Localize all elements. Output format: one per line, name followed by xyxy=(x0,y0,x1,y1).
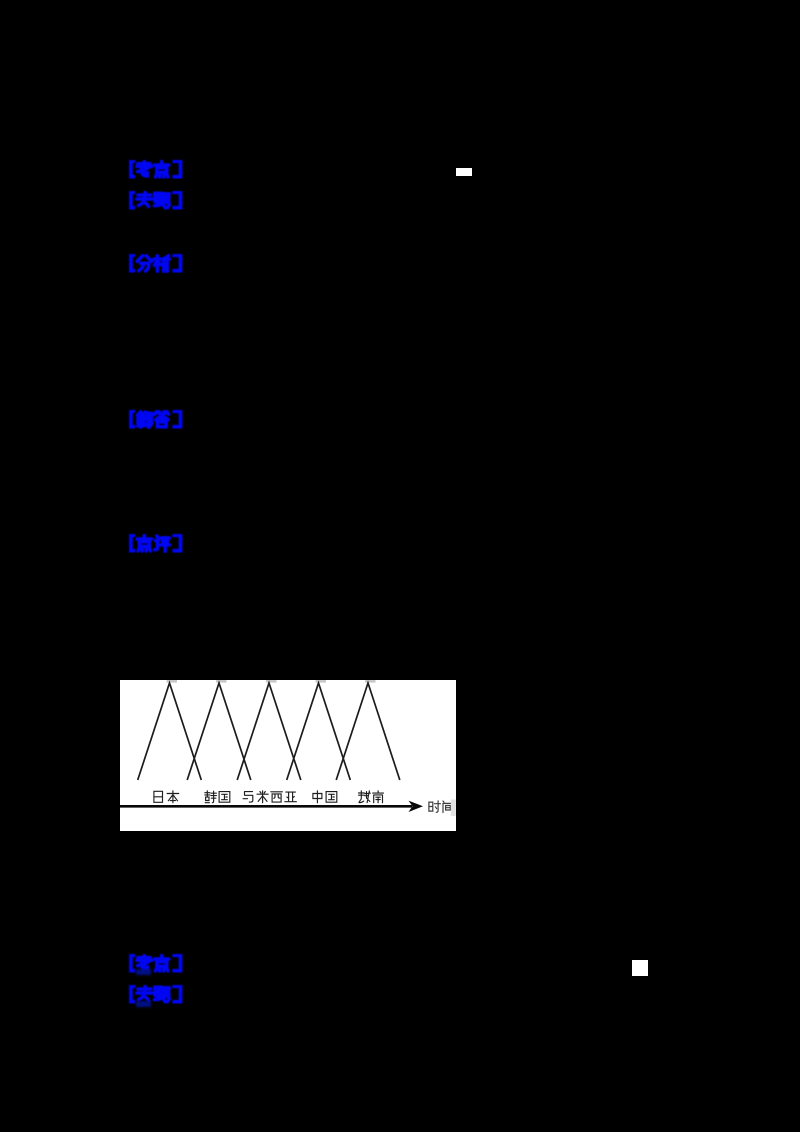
cursor bar xyxy=(451,800,456,817)
marker 考点-2 xyxy=(128,954,186,973)
label 时间 xyxy=(429,801,453,813)
figure: industry transfer diagram xyxy=(120,680,456,831)
curve triangle 3 xyxy=(237,683,301,780)
axis arrowhead xyxy=(409,801,424,812)
peak smudge 2 xyxy=(216,680,227,683)
label 日本 xyxy=(154,791,179,803)
marker 点评 xyxy=(128,534,186,553)
peak smudge 4 xyxy=(316,680,327,683)
curve triangle 2 xyxy=(187,683,251,780)
label 韩国 xyxy=(205,791,230,803)
marker 考点-1 xyxy=(128,160,186,179)
peak smudge 5 xyxy=(365,680,376,683)
curve triangle 5 xyxy=(336,683,400,780)
answer blank highlight xyxy=(456,168,472,176)
marker 分析 xyxy=(128,254,186,273)
label 越南 xyxy=(359,791,384,803)
curve triangle 1 xyxy=(138,683,202,780)
label 马来西亚 xyxy=(243,791,296,803)
marker 专题-2 xyxy=(128,985,186,1004)
faint descender artifact under marker 专题-2 xyxy=(136,1001,151,1007)
peak smudge 1 xyxy=(167,680,178,683)
curve triangle 4 xyxy=(287,683,351,780)
marker 解答 xyxy=(128,410,186,429)
answer option highlight square xyxy=(632,960,648,976)
marker 专题-1 xyxy=(128,191,186,210)
peak smudge 3 xyxy=(266,680,277,683)
time axis line xyxy=(120,805,412,808)
faint descender artifact under marker 考点-2 xyxy=(136,969,151,975)
label 中国 xyxy=(313,791,337,803)
